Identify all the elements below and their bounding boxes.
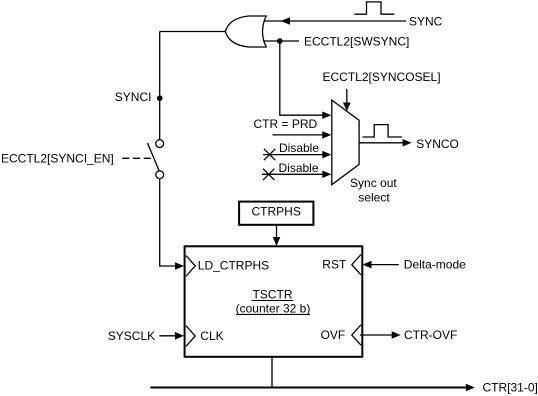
switch SYNCI_EN upper contact <box>156 140 164 148</box>
wire SYNCOSEL select into mux <box>346 89 348 104</box>
svg-text:RST: RST <box>322 257 347 271</box>
register CTRPHS box <box>239 202 313 225</box>
pin chevron LD_CTRPHS <box>186 256 195 277</box>
wire mux input 3 Disable <box>263 154 324 156</box>
svg-text:(counter 32 b): (counter 32 b) <box>236 302 311 316</box>
pin chevron CLK <box>186 326 195 347</box>
wire mux input 4 Disable <box>262 173 324 175</box>
switch SYNCI_EN arm <box>148 143 160 171</box>
pin chevron RST <box>352 255 361 275</box>
wire CTRPHS to TSCTR <box>276 225 278 238</box>
pulse symbol SYNC <box>354 2 394 14</box>
svg-text:SYSCLK: SYSCLK <box>108 329 155 343</box>
block TSCTR counter <box>185 246 363 356</box>
wire dashed control SYNCI_EN <box>122 157 151 159</box>
x-mark input 4 <box>263 169 274 180</box>
bus CTR[31-0] <box>150 387 467 389</box>
svg-text:CTR-OVF: CTR-OVF <box>404 328 457 342</box>
wire junction to mux input 1 <box>280 41 324 115</box>
wire ECCTL2[SWSYNC] to G1 <box>263 40 299 42</box>
svg-text:SYNC: SYNC <box>409 14 443 28</box>
svg-text:Delta-mode: Delta-mode <box>404 258 466 272</box>
wire Delta-mode to RST <box>371 264 399 266</box>
svg-text:CTR[31-0]: CTR[31-0] <box>483 381 538 395</box>
pulse symbol SYNCO <box>363 125 403 137</box>
wire switch to LD_CTRPHS <box>160 179 176 266</box>
svg-text:OVF: OVF <box>321 328 346 342</box>
mux sync out select <box>332 100 359 185</box>
switch SYNCI_EN lower contact <box>156 171 164 179</box>
x-mark input 3 <box>264 149 275 160</box>
svg-text:CLK: CLK <box>200 329 223 343</box>
pin chevron OVF <box>352 325 361 345</box>
svg-text:Disable: Disable <box>279 161 319 175</box>
svg-text:TSCTR: TSCTR <box>253 288 293 302</box>
svg-text:ECCTL2[SYNCI_EN]: ECCTL2[SYNCI_EN] <box>1 152 114 166</box>
wire OVF to CTR-OVF <box>360 334 393 336</box>
svg-text:SYNCO: SYNCO <box>416 137 459 151</box>
svg-text:ECCTL2[SWSYNC]: ECCTL2[SWSYNC] <box>304 35 409 49</box>
or-gate G1 <box>225 16 266 47</box>
svg-text:Disable: Disable <box>279 141 319 155</box>
wire SYSCLK to CLK <box>159 335 176 337</box>
svg-text:CTRPHS: CTRPHS <box>252 205 301 219</box>
svg-text:select: select <box>358 190 390 204</box>
wire mux output SYNCO <box>359 142 403 144</box>
svg-text:ECCTL2[SYNCOSEL]: ECCTL2[SYNCOSEL] <box>323 70 441 84</box>
node junction SYNCI <box>157 95 163 101</box>
svg-text:SYNCI: SYNCI <box>115 90 152 104</box>
wire left vertical to switch <box>159 32 161 140</box>
svg-text:CTR = PRD: CTR = PRD <box>254 117 318 131</box>
svg-text:LD_CTRPHS: LD_CTRPHS <box>198 258 269 272</box>
wire mux input 2 CTR=PRD <box>273 134 324 136</box>
node junction SWSYNC <box>277 38 283 44</box>
wire SYNC to G1 <box>264 20 407 22</box>
svg-text:Sync out: Sync out <box>350 176 397 190</box>
wire G1 output <box>160 31 225 33</box>
wire TSCTR to bus <box>271 357 273 388</box>
